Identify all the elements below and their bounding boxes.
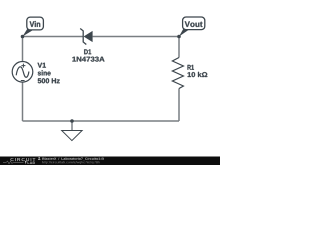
label R1 value bbox=[188, 65, 208, 77]
footer user icon bbox=[38, 157, 41, 160]
resistor R1 bbox=[172, 58, 183, 89]
node ground junction dot bbox=[70, 119, 74, 123]
voltage source V1 bbox=[12, 62, 33, 83]
wire left vertical lower (V1 bottom to bottom rail) bbox=[22, 82, 24, 121]
node Vin junction dot bbox=[21, 35, 25, 39]
label V1 value bbox=[38, 63, 60, 84]
wire right vertical upper (Vout node to R1 top) bbox=[178, 37, 180, 58]
footer bar bbox=[0, 157, 220, 166]
wire right vertical lower (R1 bottom to bottom rail) bbox=[178, 89, 180, 122]
footer CircuitLab logo bbox=[3, 158, 35, 164]
label D1 bbox=[72, 49, 104, 61]
flag Vin bbox=[23, 17, 44, 36]
node Vout junction dot bbox=[177, 35, 181, 39]
wire top-left (Vin node to diode) bbox=[23, 36, 84, 38]
wire top-right (diode to Vout node) bbox=[93, 36, 179, 38]
flag Vout bbox=[179, 17, 205, 37]
footer text line 2 bbox=[42, 161, 100, 164]
ground bbox=[62, 121, 82, 141]
wire bottom rail bbox=[23, 120, 180, 122]
wire left vertical upper (node to V1 top) bbox=[22, 37, 24, 62]
zener diode D1 bbox=[80, 29, 92, 45]
footer text line 1 bbox=[42, 158, 104, 161]
